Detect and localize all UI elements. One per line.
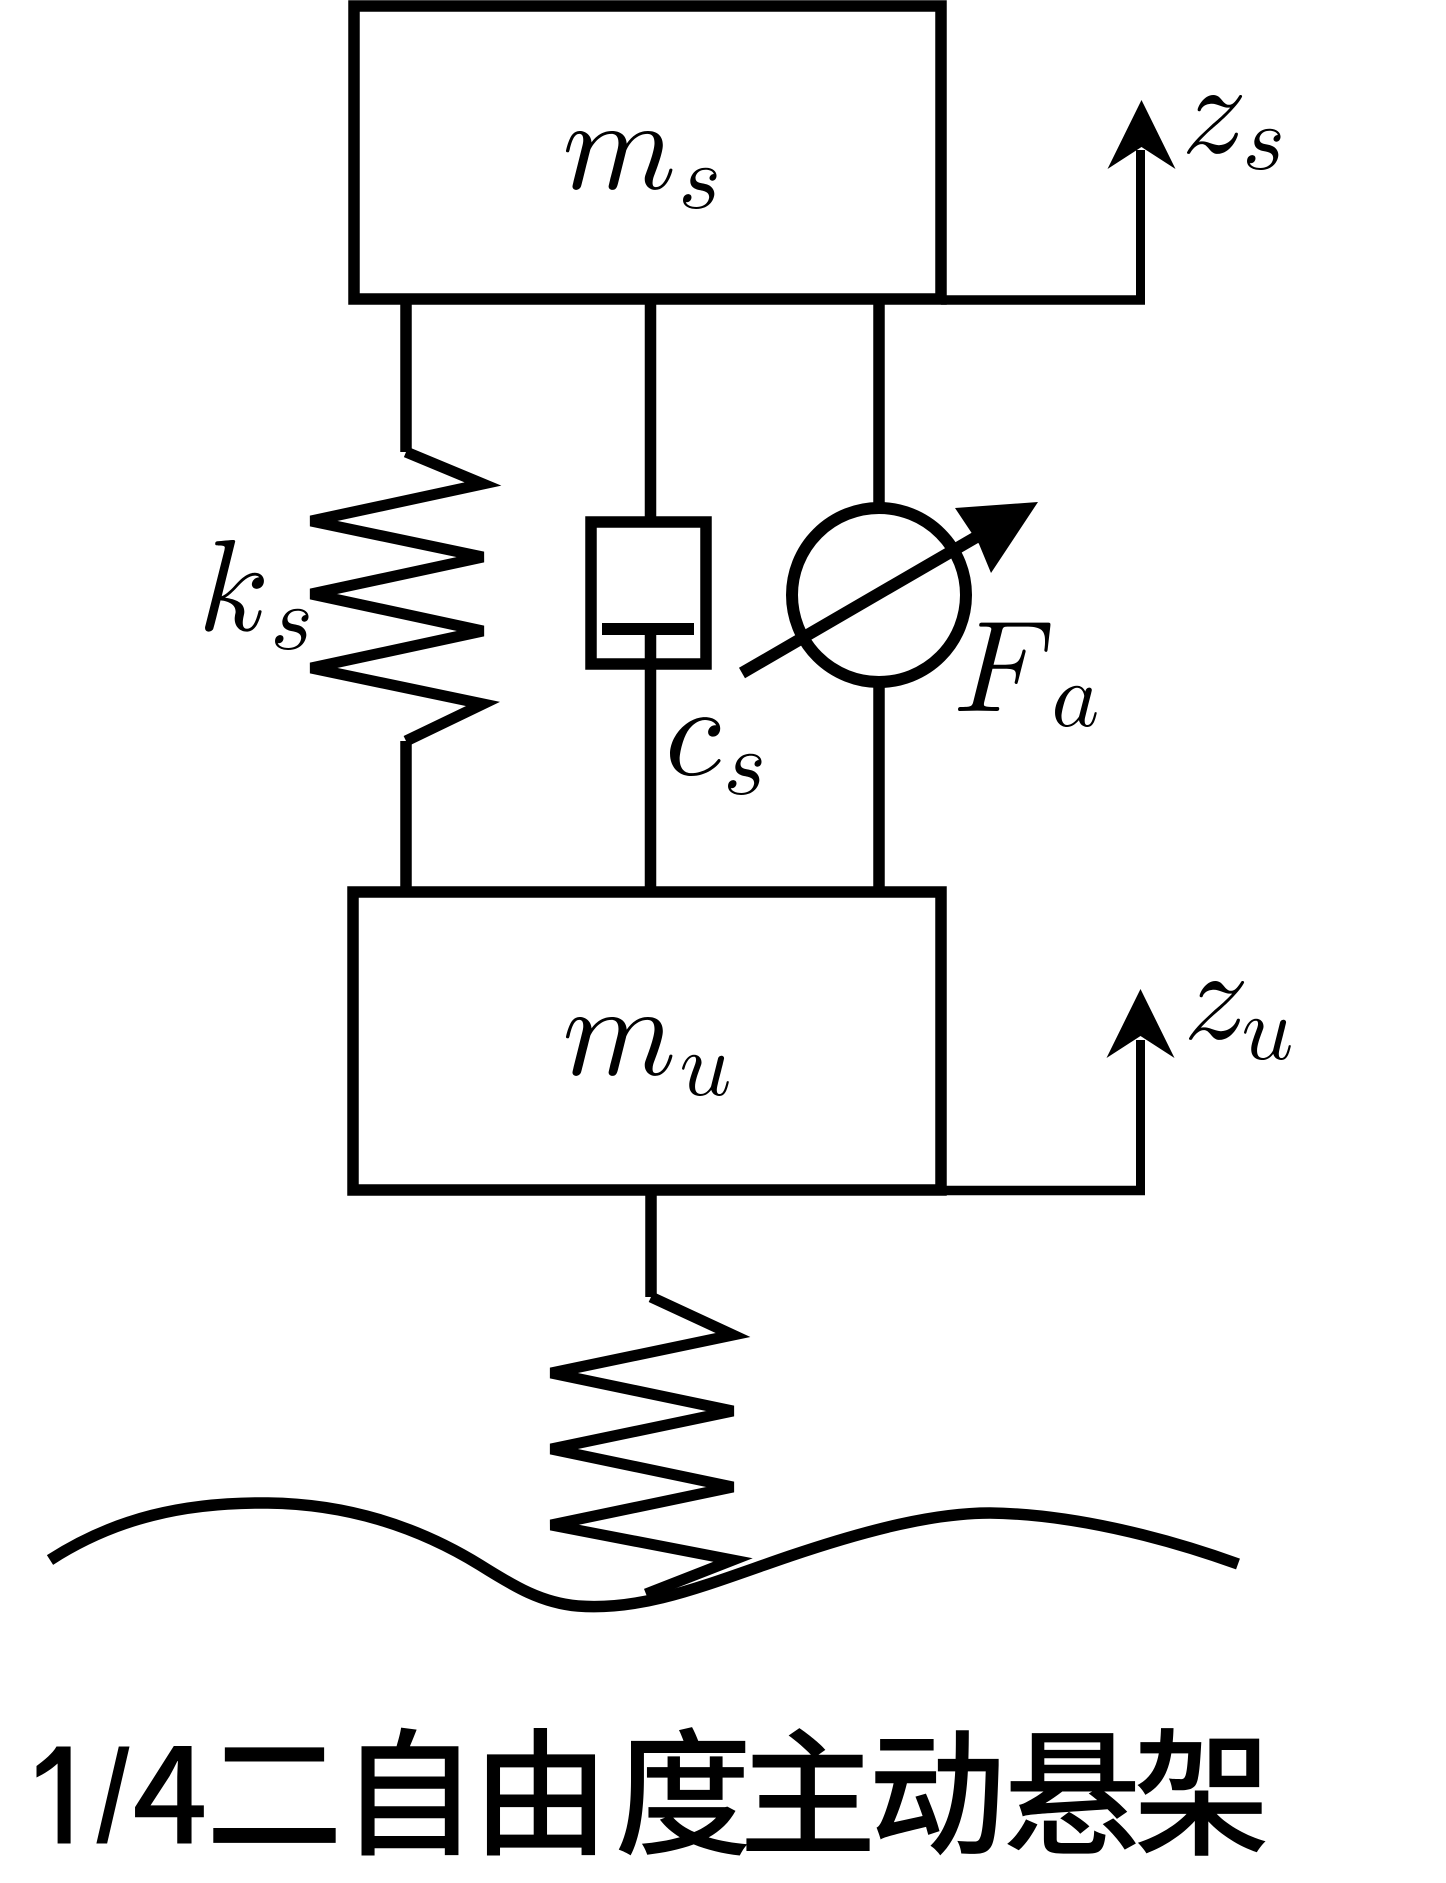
character 架 <box>1138 1728 1266 1856</box>
damper c_s cylinder box <box>591 522 706 664</box>
wire: spring k_s bottom to m_u top <box>400 741 412 892</box>
digit 4 <box>135 1746 204 1844</box>
tire spring zigzag <box>551 1297 733 1594</box>
wire: m_s bottom to damper c_s top <box>645 299 657 522</box>
character 动 <box>875 1730 998 1855</box>
character 度 <box>619 1727 748 1855</box>
subscript u of m_u <box>682 1055 729 1096</box>
wire: damper piston rod to m_u top <box>645 629 657 892</box>
subscript s of c_s <box>728 754 761 795</box>
subscript s of k_s <box>275 609 308 650</box>
z_s arrow shaft <box>1136 150 1145 300</box>
wire: actuator bottom to m_u top <box>873 678 885 892</box>
letter m of m_s <box>566 131 672 190</box>
sprung mass m_s box <box>354 6 941 299</box>
wire: m_s bottom-right to z_s axis <box>941 295 1145 305</box>
subscript s of z_s <box>1247 129 1280 170</box>
letter k of k_s <box>205 540 264 632</box>
z_u arrow shaft <box>1136 1040 1145 1190</box>
wire: m_s bottom to spring k_s top <box>400 299 412 452</box>
letter z of z_s <box>1187 95 1242 154</box>
damper c_s piston plate <box>602 623 694 635</box>
character 二 <box>213 1747 335 1843</box>
digit 1 <box>37 1747 71 1844</box>
character 由 <box>487 1728 595 1856</box>
character 悬 <box>1007 1733 1136 1853</box>
actuator arrow shaft <box>742 532 985 673</box>
character 主 <box>746 1728 869 1851</box>
letter c of c_s <box>670 717 721 776</box>
wire: m_s bottom to actuator top <box>873 299 885 512</box>
unsprung mass m_u box <box>353 892 941 1190</box>
subscript a of F_a <box>1055 686 1097 727</box>
letter z of z_u <box>1189 981 1244 1040</box>
letter F of F_a <box>958 623 1050 711</box>
subscript s of m_s <box>683 168 716 209</box>
slash of 1/4 <box>96 1747 129 1844</box>
spring k_s zigzag <box>311 452 483 741</box>
letter m of m_u <box>566 1017 672 1076</box>
z_u arrowhead <box>1107 989 1175 1058</box>
wire: m_u bottom to tire spring top <box>645 1190 657 1297</box>
wire: m_u bottom-right to z_u axis <box>941 1186 1145 1196</box>
subscript u of z_u <box>1244 1019 1291 1060</box>
road surface wave <box>50 1503 1238 1607</box>
z_s arrowhead <box>1108 100 1176 169</box>
character 自 <box>362 1728 459 1856</box>
actuator F_a circle <box>792 508 966 682</box>
actuator arrowhead <box>955 502 1038 573</box>
